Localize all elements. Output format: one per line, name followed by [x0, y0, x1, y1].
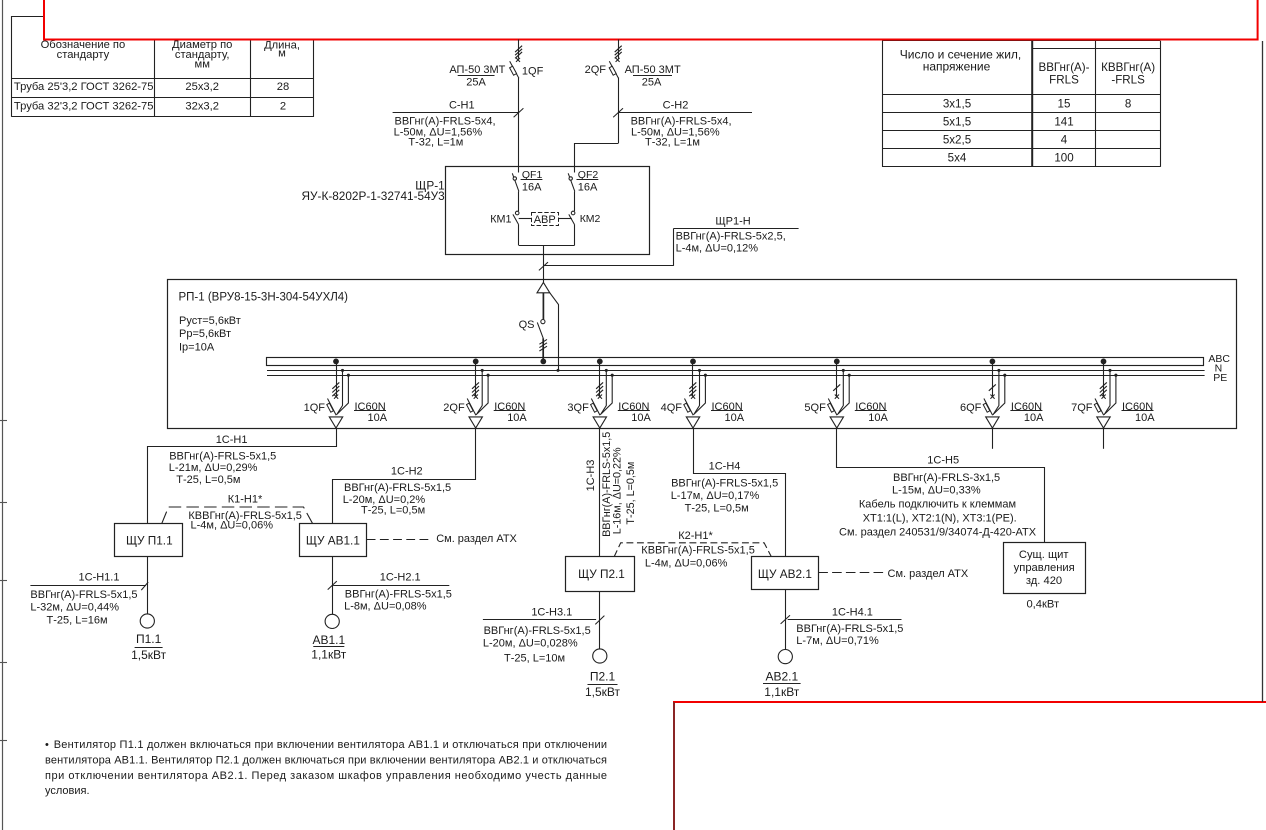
svg-text:L-20м, ΔU=0,028%: L-20м, ΔU=0,028% — [483, 638, 578, 650]
svg-text:141: 141 — [1054, 116, 1073, 129]
svg-text:См. раздел 240531/9/34074-Д-42: См. раздел 240531/9/34074-Д-420-АТХ — [839, 526, 1037, 538]
svg-text:Т-32, L=1м: Т-32, L=1м — [408, 137, 463, 149]
svg-text:L-4м, ΔU=0,06%: L-4м, ΔU=0,06% — [645, 558, 728, 570]
svg-text:L-8м, ΔU=0,08%: L-8м, ΔU=0,08% — [344, 601, 427, 613]
svg-text:1QF: 1QF — [304, 402, 326, 414]
svg-text:Труба 25'3,2 ГОСТ 3262-75: Труба 25'3,2 ГОСТ 3262-75 — [14, 81, 154, 93]
svg-text:м: м — [278, 48, 286, 60]
svg-text:1,5кВт: 1,5кВт — [131, 648, 167, 662]
svg-text:25А: 25А — [466, 76, 486, 88]
svg-text:ВВГнг(А)-FRLS-3х1,5: ВВГнг(А)-FRLS-3х1,5 — [893, 472, 1000, 484]
svg-text:ВВГнг(А)-: ВВГнг(А)- — [1038, 61, 1089, 74]
svg-text:1С-Н3.1: 1С-Н3.1 — [531, 606, 572, 618]
svg-text:ЩУ П2.1: ЩУ П2.1 — [578, 567, 625, 581]
svg-text:КВВГнг(А): КВВГнг(А) — [1101, 61, 1155, 74]
svg-text:10А: 10А — [631, 412, 651, 424]
svg-text:См. раздел АТХ: См. раздел АТХ — [436, 533, 517, 545]
svg-text:10А: 10А — [507, 412, 527, 424]
svg-text:3х1,5: 3х1,5 — [943, 98, 971, 111]
svg-text:QS: QS — [519, 319, 535, 331]
svg-text:IC60N: IC60N — [712, 401, 743, 413]
svg-text:5х2,5: 5х2,5 — [943, 134, 971, 147]
svg-text:PE: PE — [1213, 372, 1227, 384]
svg-text:100: 100 — [1054, 152, 1073, 165]
svg-text:1,5кВт: 1,5кВт — [585, 685, 621, 699]
svg-text:1QF: 1QF — [522, 65, 544, 77]
svg-text:ВВГнг(А)-FRLS-5х1,5: ВВГнг(А)-FRLS-5х1,5 — [30, 589, 137, 601]
svg-text:1С-Н1: 1С-Н1 — [216, 434, 248, 446]
svg-text:8: 8 — [1125, 98, 1131, 111]
svg-text:2QF: 2QF — [443, 402, 465, 414]
svg-text:П2.1: П2.1 — [590, 670, 616, 684]
svg-text:10А: 10А — [368, 412, 388, 424]
svg-text:7QF: 7QF — [1071, 402, 1093, 414]
svg-text:АВ1.1: АВ1.1 — [312, 633, 345, 647]
svg-text:IC60N: IC60N — [618, 401, 649, 413]
svg-text:5QF: 5QF — [804, 402, 826, 414]
svg-text:КВВГнг(А)-FRLS-5х1,5: КВВГнг(А)-FRLS-5х1,5 — [641, 545, 755, 557]
svg-text:Т-25, L=16м: Т-25, L=16м — [47, 615, 108, 627]
svg-text:Вентилятор П1.1 должен включат: Вентилятор П1.1 должен включаться при вк… — [54, 739, 607, 751]
svg-text:зд. 420: зд. 420 — [1026, 575, 1062, 587]
svg-text:1С-Н5: 1С-Н5 — [927, 454, 959, 466]
svg-text:-FRLS: -FRLS — [1111, 74, 1145, 87]
svg-text:Т-25, L=10м: Т-25, L=10м — [504, 653, 565, 665]
svg-text:ВВГнг(А)-FRLS-5х1,5: ВВГнг(А)-FRLS-5х1,5 — [484, 625, 591, 637]
svg-text:ХТ1:1(L), ХТ2:1(N), ХТ3:1(РЕ).: ХТ1:1(L), ХТ2:1(N), ХТ3:1(РЕ). — [863, 512, 1017, 524]
svg-text:ВВГнг(А)-FRLS-5х1,5: ВВГнг(А)-FRLS-5х1,5 — [169, 450, 276, 462]
svg-text:IC60N: IC60N — [855, 401, 886, 413]
svg-text:1С-Н4.1: 1С-Н4.1 — [832, 606, 873, 618]
svg-text:IC60N: IC60N — [1122, 401, 1153, 413]
svg-text:ВВГнг(А)-FRLS-5х1,5: ВВГнг(А)-FRLS-5х1,5 — [345, 589, 452, 601]
svg-text:Рр=5,6кВт: Рр=5,6кВт — [179, 328, 231, 340]
svg-text:IC60N: IC60N — [494, 401, 525, 413]
svg-text:ВВГнг(А)-FRLS-5х1,5: ВВГнг(А)-FRLS-5х1,5 — [344, 482, 451, 494]
svg-text:управления: управления — [1014, 562, 1075, 574]
svg-text:Сущ. щит: Сущ. щит — [1019, 549, 1069, 561]
svg-text:0,4кВт: 0,4кВт — [1026, 598, 1059, 610]
svg-text:условия.: условия. — [45, 785, 90, 797]
svg-text:IC60N: IC60N — [355, 401, 386, 413]
svg-text:1,1кВт: 1,1кВт — [311, 648, 347, 662]
svg-text:ЯУ-К-8202Р-1-32741-54У3: ЯУ-К-8202Р-1-32741-54У3 — [302, 189, 446, 203]
svg-text:Труба 32'3,2 ГОСТ 3262-75: Труба 32'3,2 ГОСТ 3262-75 — [14, 101, 154, 113]
svg-text:3QF: 3QF — [567, 402, 589, 414]
svg-text:1С-Н2: 1С-Н2 — [391, 465, 423, 477]
svg-text:Кабель подключить к клеммам: Кабель подключить к клеммам — [859, 499, 1016, 511]
svg-text:Т-25, L=0,5м: Т-25, L=0,5м — [176, 474, 240, 486]
svg-text:16А: 16А — [522, 182, 542, 194]
svg-text:1С-Н4: 1С-Н4 — [709, 460, 741, 472]
svg-text:4: 4 — [1061, 134, 1068, 147]
svg-text:КМ1: КМ1 — [490, 213, 511, 225]
svg-text:4QF: 4QF — [661, 402, 683, 414]
svg-text:вентилятора АВ1.1. Вентилятор: вентилятора АВ1.1. Вентилятор П2.1 долже… — [45, 754, 607, 766]
svg-text:ВВГнг(А)-FRLS-5х2,5,: ВВГнг(А)-FRLS-5х2,5, — [676, 231, 786, 243]
svg-text:К1-Н1*: К1-Н1* — [228, 493, 263, 505]
svg-text:28: 28 — [277, 81, 289, 93]
svg-text:П1.1: П1.1 — [136, 632, 162, 646]
svg-text:5х4: 5х4 — [948, 152, 967, 165]
svg-text:См. раздел АТХ: См. раздел АТХ — [888, 568, 969, 580]
svg-text:6QF: 6QF — [960, 402, 982, 414]
svg-text:АП-50 3МТ: АП-50 3МТ — [625, 64, 681, 76]
svg-text:ВВГнг(А)-FRLS-5х1,5: ВВГнг(А)-FRLS-5х1,5 — [796, 623, 903, 635]
svg-text:АВР: АВР — [534, 214, 556, 226]
svg-text:L-4м, ΔU=0,12%: L-4м, ΔU=0,12% — [676, 243, 759, 255]
svg-text:при отключении вентилятора: при отключении вентилятора АВ2.1. Перед … — [45, 770, 607, 782]
svg-text:Руст=5,6кВт: Руст=5,6кВт — [179, 315, 241, 327]
svg-text:мм: мм — [195, 59, 210, 71]
svg-text:ЩУ П1.1: ЩУ П1.1 — [126, 533, 173, 547]
svg-text:IC60N: IC60N — [1011, 401, 1042, 413]
svg-text:ЩР1-Н: ЩР1-Н — [715, 216, 750, 228]
svg-text:32х3,2: 32х3,2 — [185, 101, 219, 113]
svg-text:стандарту: стандарту — [57, 49, 110, 61]
svg-text:АП-50 3МТ: АП-50 3МТ — [449, 64, 505, 76]
svg-text:Т-25, L=0,5м: Т-25, L=0,5м — [685, 503, 749, 515]
svg-text:1С-Н3: 1С-Н3 — [585, 460, 597, 492]
svg-text:L-32м, ΔU=0,44%: L-32м, ΔU=0,44% — [30, 602, 119, 614]
svg-text:напряжение: напряжение — [923, 60, 991, 74]
svg-text:С-Н1: С-Н1 — [449, 100, 475, 112]
svg-text:ЩУ АВ1.1: ЩУ АВ1.1 — [306, 533, 360, 547]
svg-text:Iр=10А: Iр=10А — [179, 342, 215, 354]
svg-text:1,1кВт: 1,1кВт — [764, 685, 800, 699]
svg-text:1С-Н1.1: 1С-Н1.1 — [79, 572, 120, 584]
svg-text:25А: 25А — [642, 76, 662, 88]
svg-text:Т-25, L=0,5м: Т-25, L=0,5м — [361, 504, 425, 516]
svg-text:Т-32, L=1м: Т-32, L=1м — [645, 137, 700, 149]
svg-text:ВВГнг(А)-FRLS-5х1,5: ВВГнг(А)-FRLS-5х1,5 — [671, 478, 778, 490]
svg-text:2QF: 2QF — [585, 64, 607, 76]
svg-text:16А: 16А — [578, 182, 598, 194]
svg-text:Т-25, L=0,5м: Т-25, L=0,5м — [625, 462, 637, 525]
svg-text:10А: 10А — [725, 412, 745, 424]
svg-text:L-17м, ΔU=0,17%: L-17м, ΔU=0,17% — [671, 490, 760, 502]
svg-text:•: • — [45, 739, 49, 751]
svg-text:КМ2: КМ2 — [580, 213, 601, 225]
svg-text:FRLS: FRLS — [1049, 74, 1079, 87]
svg-text:L-21м, ΔU=0,29%: L-21м, ΔU=0,29% — [169, 462, 258, 474]
svg-text:L-15м, ΔU=0,33%: L-15м, ΔU=0,33% — [892, 484, 981, 496]
svg-text:5х1,5: 5х1,5 — [943, 116, 971, 129]
svg-text:L-7м, ΔU=0,71%: L-7м, ΔU=0,71% — [796, 635, 879, 647]
svg-text:25х3,2: 25х3,2 — [185, 81, 219, 93]
svg-text:L-16м, ΔU=0,22%: L-16м, ΔU=0,22% — [612, 447, 624, 534]
svg-text:ЩУ АВ2.1: ЩУ АВ2.1 — [758, 567, 812, 581]
svg-text:15: 15 — [1058, 98, 1071, 111]
svg-text:1С-Н2.1: 1С-Н2.1 — [380, 572, 421, 584]
svg-text:10А: 10А — [1024, 412, 1044, 424]
svg-text:L-4м, ΔU=0,06%: L-4м, ΔU=0,06% — [191, 520, 274, 532]
svg-text:АВ2.1: АВ2.1 — [765, 670, 798, 684]
svg-text:10А: 10А — [868, 412, 888, 424]
svg-text:2: 2 — [280, 101, 286, 113]
svg-text:С-Н2: С-Н2 — [663, 100, 689, 112]
svg-text:10А: 10А — [1135, 412, 1155, 424]
svg-text:К2-Н1*: К2-Н1* — [678, 530, 713, 542]
svg-text:РП-1 (ВРУ8-15-3Н-304-54УХЛ4): РП-1 (ВРУ8-15-3Н-304-54УХЛ4) — [179, 291, 349, 303]
